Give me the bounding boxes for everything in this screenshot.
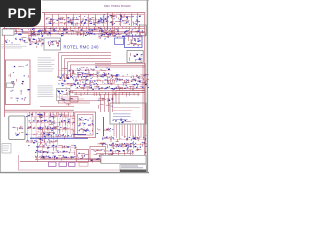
wire bus bundle corner	[59, 53, 112, 79]
relay K1 box	[44, 38, 61, 50]
wire corner bundle	[57, 94, 90, 101]
wire bus vertical fan	[114, 125, 144, 141]
wire	[18, 155, 20, 170]
wire bus	[95, 66, 146, 68]
wire	[80, 15, 82, 27]
power supply block border	[6, 60, 31, 105]
wire bus	[3, 33, 130, 35]
wire bus	[74, 93, 140, 95]
revision note box	[110, 103, 146, 124]
buffer stage parts	[99, 98, 114, 109]
IC U7 box	[125, 36, 143, 48]
rectifier parts	[91, 149, 114, 163]
wire bus	[5, 109, 74, 111]
RC network row top	[46, 16, 109, 26]
resistor row on bus B	[2, 28, 43, 36]
parts list text	[2, 44, 27, 48]
oscillator inner border	[78, 115, 94, 136]
wire	[108, 94, 110, 112]
connector J2 outline	[140, 25, 147, 36]
output driver row	[113, 135, 148, 149]
wire	[18, 169, 145, 171]
wire	[58, 15, 60, 27]
resistor row on bus A	[42, 28, 119, 37]
wire	[96, 153, 132, 155]
wire	[42, 144, 44, 158]
wire	[40, 158, 145, 160]
connector J1 outline	[2, 29, 14, 35]
wire taps on bus	[46, 27, 139, 31]
rectifier block border	[90, 147, 106, 161]
revision note text	[113, 114, 131, 120]
IC U8 box	[115, 38, 124, 45]
oscillator parts	[78, 117, 94, 134]
wire	[40, 106, 74, 108]
connector CN6	[79, 163, 88, 167]
wire	[43, 13, 45, 34]
connector CN3	[49, 162, 57, 166]
amplifier stage cluster	[57, 76, 76, 106]
wire	[73, 15, 75, 27]
connector P2 outline	[9, 116, 25, 140]
wire	[144, 63, 146, 159]
wire corner bundle right	[113, 89, 145, 104]
wire	[131, 14, 133, 27]
wire	[88, 15, 90, 27]
wire bus	[95, 62, 146, 64]
legend text	[3, 146, 9, 151]
IC cluster top-right	[101, 14, 141, 26]
wire	[37, 143, 39, 162]
connector CN5	[69, 162, 76, 166]
power supply parts	[9, 64, 30, 101]
terminal strip box	[101, 156, 146, 164]
wire	[66, 15, 68, 27]
capacitor C20 box	[70, 97, 78, 103]
crystal oscillator box	[127, 51, 143, 63]
wire bus	[3, 31, 145, 33]
wire	[95, 15, 97, 27]
wire (dark)	[103, 117, 105, 136]
preamp cluster mid	[37, 114, 75, 142]
schematic sheet top border	[42, 12, 145, 14]
wire ground bus branch	[74, 134, 86, 136]
counter IC cluster	[110, 16, 138, 26]
wire	[112, 110, 132, 112]
wire	[112, 13, 114, 26]
wire	[52, 15, 54, 27]
wire	[137, 13, 139, 26]
driver cluster	[97, 128, 115, 149]
wire	[103, 15, 105, 27]
schematic sheet bottom border	[35, 159, 145, 161]
wire	[44, 13, 144, 15]
svg-text:ROTEL RMC 240: ROTEL RMC 240	[64, 44, 100, 49]
wire bus	[3, 27, 145, 29]
small parts cluster	[5, 38, 28, 44]
note box parts	[113, 118, 137, 123]
legend box	[2, 144, 11, 154]
title block	[120, 165, 146, 173]
diode row D1-D8	[59, 67, 110, 79]
notes text block 3	[38, 86, 54, 97]
wire	[120, 14, 122, 27]
wire	[58, 100, 104, 102]
wire drops	[30, 112, 74, 117]
wire	[112, 107, 140, 109]
terminal row	[113, 144, 148, 156]
wire vertical streaks	[28, 113, 74, 146]
wire bus	[5, 111, 74, 113]
bottom amp cluster	[35, 145, 76, 161]
wire	[58, 102, 90, 104]
regulator parts	[78, 153, 89, 160]
wire	[20, 161, 115, 163]
IC U7 pins	[127, 38, 141, 46]
wire bus	[70, 90, 145, 92]
wire bus	[70, 91, 145, 93]
regulator block border	[76, 150, 88, 163]
logic IC band row 2	[75, 81, 149, 91]
shield box outline	[57, 89, 71, 101]
component row top edge	[98, 30, 146, 40]
connector P2 pins	[12, 126, 23, 136]
oscillator block border	[75, 112, 96, 138]
bus taps down	[76, 92, 138, 96]
PDF file-type badge	[0, 0, 41, 27]
connector CN4	[59, 162, 67, 166]
fuse F1 outline	[7, 83, 14, 88]
wire	[118, 150, 120, 156]
logic IC band row 1	[75, 74, 149, 83]
wire	[130, 150, 132, 156]
crystal X1 parts	[130, 53, 143, 63]
schematic sheet left border	[4, 13, 6, 118]
wire bus	[95, 64, 146, 66]
schematic sheet right border	[144, 13, 146, 160]
relay internal parts	[48, 41, 60, 47]
wire ground bus (blue)	[30, 137, 88, 139]
preamp cluster left	[26, 114, 58, 146]
notes text block 2	[38, 58, 55, 72]
wire	[112, 94, 114, 112]
wire	[100, 94, 102, 112]
wire	[107, 13, 109, 31]
wire	[112, 150, 114, 156]
IC cluster U-left	[28, 28, 44, 48]
wire bus	[3, 26, 145, 28]
wire	[124, 150, 126, 156]
wire	[142, 65, 144, 120]
wire	[104, 94, 106, 112]
svg-text:RMC TIMING BOARD: RMC TIMING BOARD	[104, 4, 131, 8]
